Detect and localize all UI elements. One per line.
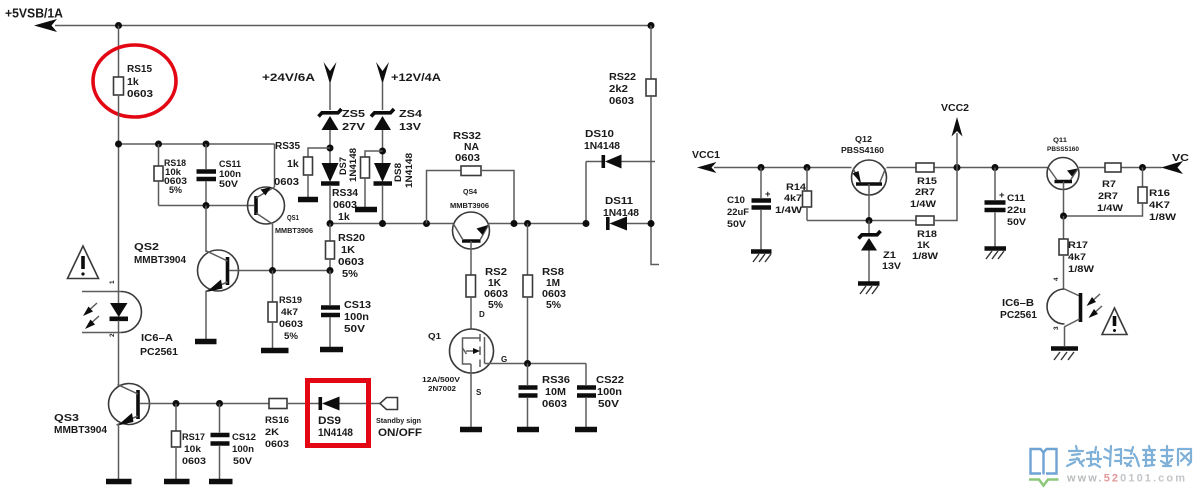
wire QS2 base to node	[229, 270, 330, 272]
resistor RS32 bypass	[427, 130, 515, 224]
svg-text:0603: 0603	[338, 256, 364, 268]
node rail/R14	[804, 164, 811, 171]
node DS10/DS11 left	[583, 220, 590, 227]
svg-text:ZS5: ZS5	[342, 108, 365, 120]
svg-text:10k: 10k	[184, 444, 202, 455]
net VCC1 label	[692, 149, 720, 161]
svg-text:27V: 27V	[342, 121, 365, 133]
svg-text:MMBT3904: MMBT3904	[134, 254, 186, 266]
node RS8 top	[524, 220, 531, 227]
node DS7 bottom	[327, 220, 334, 227]
ground Q1 source	[460, 427, 482, 433]
wire QS1 collector down	[272, 224, 274, 271]
svg-text:1N4148: 1N4148	[318, 427, 353, 439]
svg-text:1/4W: 1/4W	[775, 205, 802, 216]
svg-text:+5VSB/1A: +5VSB/1A	[5, 7, 63, 21]
node DS11/RS22 right	[648, 220, 655, 227]
svg-text:R7: R7	[1102, 179, 1116, 190]
node bus/main vertical	[115, 141, 122, 148]
svg-text:12A/500V: 12A/500V	[422, 375, 460, 384]
svg-text:+12V/4A: +12V/4A	[391, 72, 441, 84]
resistor RS22	[609, 26, 659, 265]
svg-text:50V: 50V	[727, 219, 747, 230]
node rail/C11	[992, 164, 999, 171]
ground RS36	[517, 427, 539, 433]
svg-text:0603: 0603	[455, 152, 480, 164]
svg-text:4: 4	[1053, 277, 1060, 281]
svg-text:4k7: 4k7	[784, 193, 802, 204]
svg-text:RS34: RS34	[332, 187, 358, 199]
diode DS8 1N4148	[374, 153, 416, 224]
svg-text:1N4148: 1N4148	[603, 207, 639, 219]
svg-text:50V: 50V	[1007, 217, 1027, 228]
svg-text:RS20: RS20	[338, 232, 365, 244]
svg-text:Standby sign: Standby sign	[376, 416, 421, 425]
svg-text:D: D	[479, 310, 485, 319]
transistor QS4 MMBT3906	[450, 187, 490, 249]
resistor R14	[775, 168, 812, 221]
IC6-B pin 4	[1053, 277, 1060, 281]
svg-text:RS17: RS17	[182, 432, 205, 443]
ground QS2 emitter	[195, 339, 217, 345]
node ZS5/RS35/DS7	[327, 145, 334, 152]
VCC2 arrow	[952, 117, 963, 168]
svg-text:5%: 5%	[488, 299, 504, 311]
+24V input arrow	[324, 62, 337, 84]
svg-text:100n: 100n	[232, 444, 254, 455]
+12V input arrow	[376, 62, 389, 84]
svg-text:22u: 22u	[1007, 205, 1026, 216]
diode DS11 1N4148	[603, 195, 651, 231]
svg-text:PC2561: PC2561	[140, 346, 178, 358]
svg-text:+24V/6A: +24V/6A	[262, 72, 315, 84]
ground Z1 hatched	[858, 284, 880, 295]
warning triangle right	[1102, 308, 1127, 335]
IC6-A pin 2	[109, 333, 116, 337]
wire Q12 base down	[868, 184, 870, 221]
svg-text:1k: 1k	[338, 211, 350, 223]
svg-text:MMBT3904: MMBT3904	[54, 424, 107, 436]
capacitor CS13	[321, 271, 371, 348]
transistor QS3 MMBT3904	[54, 384, 150, 437]
ground CS22	[575, 427, 597, 433]
svg-text:1k: 1k	[127, 76, 139, 88]
resistor RS15	[114, 63, 154, 100]
svg-text:50V: 50V	[233, 456, 253, 467]
diode DS7 1N4148	[321, 148, 359, 224]
node Q11 base/R16/R17	[1060, 213, 1067, 220]
resistor RS36	[519, 364, 571, 428]
watermark Chinese text	[1067, 446, 1191, 467]
svg-text:PBSS4160: PBSS4160	[841, 146, 885, 155]
node RS32 left	[423, 220, 430, 227]
wire main line y223 left part	[330, 223, 453, 225]
resistor RS34 value labels	[332, 187, 358, 223]
svg-text:IC6–A: IC6–A	[141, 332, 173, 344]
IC6-B light arrow 1	[1087, 294, 1101, 306]
node bus/CS11	[203, 141, 210, 148]
svg-text:VCC2: VCC2	[941, 102, 969, 114]
ground CS12	[209, 479, 233, 485]
watermark logo book icon	[1031, 449, 1057, 475]
node rail/C10	[758, 164, 765, 171]
capacitor C10 22uF	[727, 168, 771, 251]
svg-text:CS12: CS12	[232, 432, 256, 443]
svg-text:PC2561: PC2561	[1000, 309, 1037, 321]
ground RS17	[164, 479, 190, 485]
svg-text:RS16: RS16	[265, 415, 289, 426]
resistor RS2	[466, 266, 508, 330]
svg-text:G: G	[501, 355, 507, 364]
svg-text:0603: 0603	[333, 199, 357, 211]
resistor R18	[912, 168, 957, 263]
resistor R15	[910, 163, 938, 210]
wire RS15 top lead	[118, 26, 120, 78]
zener ZS5 27V	[319, 108, 366, 133]
svg-text:4K7: 4K7	[1149, 200, 1170, 211]
resistor RS8	[523, 224, 566, 364]
svg-text:4k7: 4k7	[281, 307, 298, 318]
node QS1 collector / QS2 base	[269, 267, 276, 274]
wire QS1 emitter to upper bus	[274, 144, 276, 187]
resistor RS35	[274, 140, 313, 197]
svg-text:3: 3	[1053, 326, 1060, 330]
node QS4 emitter / RS32 right	[511, 220, 518, 227]
resistor RS34 body	[361, 157, 370, 207]
svg-text:C10: C10	[727, 195, 745, 206]
wire Q1 gate to node	[485, 363, 587, 365]
svg-text:+: +	[999, 190, 1005, 201]
svg-text:0603: 0603	[542, 398, 567, 410]
wire RS16 to DS9	[287, 403, 319, 405]
wire QS3 emitter down	[118, 424, 120, 479]
wire ZS4 to DS8 node	[382, 130, 384, 163]
wire +12V to ZS4	[382, 82, 384, 110]
svg-text:0603: 0603	[609, 95, 634, 107]
resistor RS17	[172, 404, 207, 480]
net VCC2 label	[941, 102, 969, 114]
svg-text:1K: 1K	[341, 244, 355, 256]
svg-text:2: 2	[109, 333, 116, 337]
capacitor CS12	[211, 404, 257, 480]
svg-text:4k7: 4k7	[1068, 252, 1086, 263]
wire QS2 collector up	[205, 206, 207, 253]
ground CS13	[320, 347, 343, 353]
IC6-A light arrow 2	[85, 316, 99, 329]
svg-text:VCC1: VCC1	[692, 149, 720, 161]
wire Q1 source down	[470, 364, 472, 427]
zener ZS4 13V	[371, 108, 422, 133]
svg-text:RS36: RS36	[542, 374, 570, 386]
svg-text:Q12: Q12	[855, 135, 873, 144]
svg-text:0603: 0603	[127, 88, 153, 100]
svg-text:100n: 100n	[597, 386, 622, 398]
svg-text:13V: 13V	[399, 121, 421, 133]
svg-text:1/8W: 1/8W	[912, 251, 938, 262]
wire QS3 base line	[140, 403, 269, 405]
node lower bus/CS11	[203, 202, 210, 209]
svg-text:Q1: Q1	[428, 332, 442, 341]
svg-text:0603: 0603	[265, 439, 289, 450]
node Q12 base/Z1	[866, 217, 873, 224]
svg-text:1K: 1K	[917, 240, 930, 251]
svg-text:1/4W: 1/4W	[910, 199, 936, 210]
svg-text:50V: 50V	[219, 179, 239, 190]
svg-text:1/8W: 1/8W	[1068, 264, 1094, 275]
transistor QS1 MMBT3906	[248, 187, 314, 235]
warning triangle left	[68, 246, 99, 279]
net +5VSB/1A label	[5, 7, 63, 21]
wire +5VSB top bus	[55, 25, 651, 27]
svg-text:R15: R15	[917, 176, 938, 187]
svg-text:2R7: 2R7	[1098, 191, 1118, 202]
node +5VSB / RS22 junction	[648, 22, 655, 29]
svg-text:C11: C11	[1007, 193, 1026, 204]
watermark logo green base	[1029, 480, 1059, 486]
wire VCC rail	[714, 167, 1162, 169]
svg-text:5%: 5%	[342, 268, 359, 280]
svg-text:R18: R18	[917, 229, 937, 240]
node rail/VCC2	[954, 164, 961, 171]
svg-text:IC6–B: IC6–B	[1002, 297, 1034, 309]
svg-text:1: 1	[109, 280, 116, 284]
node base/RS17	[173, 400, 180, 407]
svg-text:DS11: DS11	[605, 195, 633, 207]
node ZS4/RS34/DS8	[379, 148, 386, 155]
resistor RS16	[265, 399, 289, 451]
svg-text:ON/OFF: ON/OFF	[378, 427, 422, 439]
ground RS34	[355, 207, 377, 213]
resistor RS18	[154, 144, 187, 206]
VCC1 arrow	[697, 162, 717, 173]
capacitor CS11	[197, 144, 242, 206]
svg-text:0603: 0603	[279, 319, 303, 330]
svg-text:1k: 1k	[287, 158, 299, 170]
transistor Q12 PBSS4160	[841, 135, 887, 195]
net VC label	[1172, 152, 1189, 164]
svg-text:2K: 2K	[265, 427, 279, 438]
svg-text:50V: 50V	[598, 398, 619, 410]
svg-text:1N4148: 1N4148	[404, 153, 415, 188]
svg-text:www.520101.com: www.520101.com	[1066, 473, 1187, 485]
svg-text:QS3: QS3	[54, 412, 79, 424]
svg-text:MMBT3906: MMBT3906	[275, 226, 313, 235]
net +12V/4A label	[391, 72, 441, 84]
wire lower rail y220	[807, 220, 916, 222]
node rail/R16	[1139, 164, 1146, 171]
svg-text:S: S	[476, 388, 482, 397]
wire QS4 base down	[470, 241, 472, 275]
diode DS9 1N4148	[318, 397, 380, 440]
resistor RS20	[326, 224, 366, 281]
node base/CS12	[216, 400, 223, 407]
svg-text:RS15: RS15	[127, 63, 152, 75]
svg-text:RS22: RS22	[609, 71, 636, 83]
resistor R17	[1059, 216, 1094, 289]
IC6-A pin 1	[109, 280, 116, 284]
transistor Q11 PBSS5160	[1047, 137, 1079, 190]
transistor Q1 2N7002 MOSFET	[422, 310, 507, 397]
wire +24V to ZS5	[329, 82, 331, 110]
svg-text:50V: 50V	[344, 323, 365, 335]
svg-text:QS2: QS2	[134, 241, 159, 253]
VC arrow right	[1161, 161, 1183, 174]
svg-text:RS19: RS19	[279, 295, 302, 306]
IC6-A light arrow 1	[83, 303, 97, 316]
svg-text:0603: 0603	[182, 456, 206, 467]
svg-text:DS9: DS9	[318, 415, 341, 427]
svg-text:PBSS5160: PBSS5160	[1047, 146, 1079, 153]
wire lower bus y205	[159, 205, 255, 207]
wire node to RS34 resistor	[365, 151, 383, 157]
ground RS19	[261, 348, 289, 354]
svg-text:22uF: 22uF	[727, 207, 749, 218]
wire QS2 emitter down	[205, 291, 207, 339]
svg-text:2R7: 2R7	[915, 187, 935, 198]
svg-text:DS8: DS8	[393, 163, 404, 182]
svg-text:5%: 5%	[169, 185, 183, 196]
opto-coupler IC6-B PC2561 transistor side	[1000, 289, 1081, 346]
IC6-B pin 3	[1053, 326, 1060, 330]
svg-text:1N4148: 1N4148	[584, 140, 620, 152]
svg-text:MMBT3906: MMBT3906	[450, 201, 489, 210]
svg-text:0603: 0603	[274, 176, 299, 188]
wire RS15 bottom to bus	[118, 95, 120, 303]
transistor QS2 MMBT3904	[134, 241, 239, 292]
svg-text:5%: 5%	[546, 299, 562, 311]
svg-text:R16: R16	[1149, 188, 1170, 199]
node DS8 bottom	[379, 220, 386, 227]
opto-coupler IC6-A PC2561 LED side	[82, 292, 178, 359]
ground RS35	[298, 197, 318, 203]
diode DS10 1N4148	[584, 128, 655, 169]
ground QS3	[106, 479, 132, 485]
wire Q11 base down	[1063, 182, 1065, 217]
svg-text:CS13: CS13	[344, 299, 371, 311]
svg-text:RS35: RS35	[275, 140, 300, 152]
node RS20/CS13/QS2 base	[327, 267, 334, 274]
watermark url www.520101.com	[1066, 473, 1187, 485]
resistor R16	[1064, 168, 1177, 224]
connector Standby sign ON/OFF	[376, 398, 422, 440]
wire upper bus y144	[119, 143, 275, 145]
ground C10 hatched	[751, 252, 772, 263]
svg-text:Q11: Q11	[1053, 137, 1068, 144]
svg-text:2N7002: 2N7002	[428, 384, 456, 393]
svg-text:QS4: QS4	[463, 187, 477, 196]
capacitor CS22	[577, 364, 624, 428]
svg-text:100n: 100n	[344, 311, 369, 323]
+5VSB input arrow	[34, 19, 57, 32]
wire LED cathode to QS3	[118, 321, 120, 387]
ground C11 hatched	[985, 249, 1007, 260]
svg-text:R14: R14	[786, 182, 807, 193]
node gate/RS8/RS36	[524, 360, 531, 367]
capacitor C11 22u	[985, 168, 1027, 248]
wire node to RS35	[308, 148, 330, 157]
svg-text:10M: 10M	[545, 386, 566, 398]
svg-text:13V: 13V	[882, 261, 902, 272]
svg-text:1/8W: 1/8W	[1149, 212, 1176, 223]
wire ZS5 to DS7 node	[329, 130, 331, 163]
node +5VSB / RS15 junction	[115, 22, 122, 29]
zener Z1 13V	[859, 221, 902, 283]
resistor RS19	[268, 271, 303, 349]
svg-text:Z1: Z1	[883, 250, 897, 261]
resistor R7	[1097, 163, 1123, 214]
IC6-B light arrow 2	[1089, 306, 1103, 318]
svg-text:R17: R17	[1068, 240, 1088, 251]
svg-text:1N4148: 1N4148	[348, 148, 359, 182]
svg-text:DS10: DS10	[585, 128, 614, 140]
svg-text:5%: 5%	[284, 331, 299, 342]
svg-text:ZS4: ZS4	[399, 108, 422, 120]
wire main line right of QS4	[489, 223, 586, 225]
svg-text:CS22: CS22	[596, 374, 624, 386]
red highlight box around DS9	[308, 381, 369, 446]
wire DS10 left leg	[585, 162, 587, 224]
svg-text:1/4W: 1/4W	[1097, 203, 1123, 214]
ground IC6-B hatched	[1051, 349, 1078, 361]
node bus/RS18	[155, 141, 162, 148]
svg-text:2k2: 2k2	[609, 83, 628, 95]
red highlight ellipse around RS15	[93, 45, 176, 117]
svg-text:QS1: QS1	[287, 213, 299, 222]
net +24V/6A label	[262, 72, 315, 84]
